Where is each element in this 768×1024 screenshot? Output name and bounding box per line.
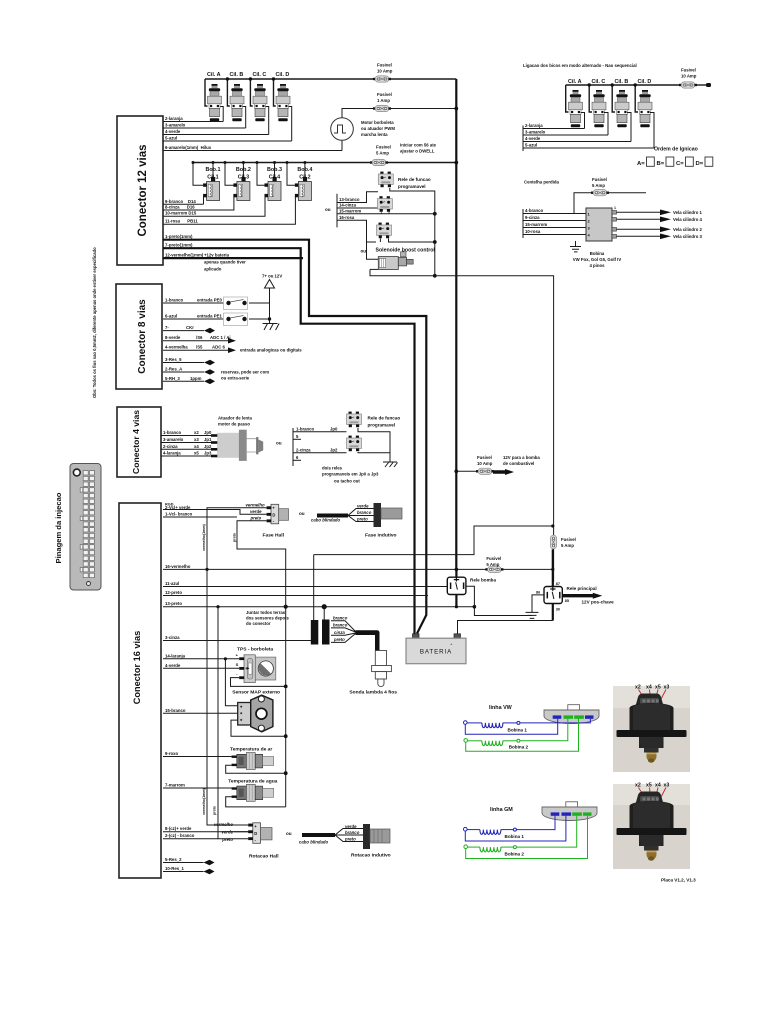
- svg-text:Rele bomba: Rele bomba: [470, 577, 496, 582]
- wire 2-laranja injector A: [163, 107, 223, 122]
- wire rotation preto ground riser: [218, 607, 248, 839]
- wire solenoid output to main switched rail: [370, 269, 554, 582]
- wire 6-azul entrada PE1: [163, 314, 271, 321]
- svg-text:14-cinza: 14-cinza: [339, 203, 357, 208]
- svg-text:branco: branco: [333, 616, 348, 621]
- svg-text:verde: verde: [345, 824, 357, 829]
- svg-text:4-verde: 4-verde: [165, 663, 181, 668]
- svg-text:cinza: cinza: [334, 630, 345, 635]
- fuse F2 1A: [373, 105, 391, 111]
- svg-text:2-(cz) - branco: 2-(cz) - branco: [165, 833, 195, 838]
- svg-text:dois reles: dois reles: [322, 466, 343, 471]
- svg-text:B=: B=: [657, 161, 665, 167]
- svg-text:Fusivel: Fusivel: [477, 455, 492, 460]
- svg-text:3-amarelo: 3-amarelo: [525, 130, 546, 135]
- wire fuse F1 to trunk: [390, 78, 456, 80]
- wire 7-marrom water temp: [163, 783, 232, 789]
- relay K2 programmable: [377, 196, 392, 212]
- svg-text:2-laranja: 2-laranja: [165, 116, 183, 121]
- svg-text:1-Vcl- branco: 1-Vcl- branco: [165, 512, 193, 517]
- wire fuse F4 output terminal: [696, 84, 708, 86]
- svg-text:Conector 8 vias: Conector 8 vias: [137, 299, 148, 374]
- wire comb rail bank2: [522, 126, 524, 152]
- lambda wires fan: [331, 616, 356, 643]
- svg-text:6-amarelo(1mm) Hilux: 6-amarelo(1mm) Hilux: [165, 145, 212, 150]
- wire TPS ground tap: [231, 678, 286, 687]
- svg-text:16-rosa: 16-rosa: [339, 215, 355, 220]
- svg-text:Temperatura de agua: Temperatura de agua: [228, 779, 277, 785]
- wire 8-cz verde rotation hall: [163, 826, 249, 832]
- svg-text:/S6: /S6: [196, 335, 203, 340]
- wire 4-verde bank2: [523, 113, 631, 142]
- svg-text:ou: ou: [276, 441, 282, 446]
- lambda probe Sonda: [349, 651, 397, 696]
- wire relay K2 left pin drop: [380, 212, 382, 213]
- arrow 12V pos-chave: [562, 593, 614, 605]
- svg-text:Sonda lambda 4 fios: Sonda lambda 4 fios: [349, 690, 397, 696]
- svg-text:Bobina 2: Bobina 2: [505, 852, 525, 857]
- wire 2-cinza x4 Jp2: [161, 444, 212, 450]
- wire rele principal 30 to battery: [458, 621, 553, 634]
- svg-text:x2: x2: [635, 685, 641, 691]
- photo IAC valve GM: [613, 783, 690, 870]
- wire 13-branco: [337, 192, 378, 203]
- svg-text:5-azul: 5-azul: [525, 143, 537, 148]
- wire 4-laranja x5 Jp3: [161, 451, 212, 457]
- wire coil bus 12V: [193, 162, 456, 164]
- wire 11-rosa coil Bob.4: [163, 196, 295, 224]
- wire vela cilindro 4: [617, 218, 661, 220]
- wire 10-rosa pin4: [523, 229, 586, 235]
- fuse F7 5A vertical: [550, 535, 575, 549]
- svg-text:7-marrom: 7-marrom: [165, 783, 185, 788]
- fuse F6 10A fuel pump feed: [454, 455, 494, 474]
- svg-text:1: 1: [614, 206, 616, 210]
- svg-text:Bobina 1: Bobina 1: [508, 728, 528, 733]
- wire 5-azul bank2: [523, 113, 654, 149]
- svg-text:2-laranja: 2-laranja: [525, 123, 543, 128]
- svg-text:Placa V1.2, V1.3: Placa V1.2, V1.3: [661, 878, 696, 883]
- svg-text:Rele de funcao: Rele de funcao: [368, 416, 401, 421]
- wire 5-azul injector D: [163, 107, 292, 142]
- wire 1-preto(1mm) power ground outer run: [163, 234, 426, 634]
- svg-text:13-preto: 13-preto: [165, 601, 182, 606]
- wire 5-RH_3: [163, 376, 215, 384]
- relay K5 programmable Jp2: [347, 436, 362, 452]
- svg-text:x3: x3: [664, 685, 670, 691]
- sensor Fase indutivo: [317, 503, 402, 539]
- svg-text:reservas, pode ser com: reservas, pode ser com: [221, 370, 269, 375]
- svg-text:5-RH_3: 5-RH_3: [165, 376, 180, 381]
- svg-text:x4: x4: [646, 685, 652, 691]
- svg-text:Atuador de lenta: Atuador de lenta: [218, 416, 253, 421]
- svg-text:CKr: CKr: [186, 325, 194, 330]
- svg-text:16-vermelho: 16-vermelho: [165, 564, 191, 569]
- wire 4-vermelha ADC6: [163, 345, 236, 353]
- coil Bobina 1 GM blue: [464, 816, 566, 841]
- wire 4-verde injector C: [163, 107, 269, 135]
- svg-text:+12v bateria: +12v bateria: [204, 252, 230, 257]
- wire 2-cinza Jp2 relay: [293, 447, 347, 453]
- relay K1 programmable: [378, 172, 393, 188]
- wire 2-Vcl+ verde to Fase Hall: [163, 503, 267, 515]
- injector INJ2-D: [638, 90, 652, 127]
- svg-text:Obs: Todos os fios sao 0,5mm2,: Obs: Todos os fios sao 0,5mm2, diferente…: [92, 247, 97, 398]
- svg-text:Fusivel: Fusivel: [377, 92, 392, 97]
- svg-text:2-cinza: 2-cinza: [296, 447, 311, 452]
- svg-text:Cil. A: Cil. A: [207, 72, 221, 78]
- svg-text:2-Vcl+ verde: 2-Vcl+ verde: [165, 505, 191, 510]
- sensor TPS borboleta: [236, 647, 276, 683]
- svg-text:D: D: [272, 512, 275, 517]
- svg-text:Conector 4 vias: Conector 4 vias: [131, 410, 141, 474]
- svg-text:Cil. B: Cil. B: [230, 72, 244, 78]
- svg-text:6-azul: 6-azul: [165, 314, 177, 319]
- svg-text:4-laranja: 4-laranja: [163, 451, 181, 456]
- wire 1-branco x2 Jp0: [161, 430, 212, 436]
- svg-text:4-vermelha: 4-vermelha: [165, 345, 188, 350]
- fuse F3 5A coils: [370, 159, 388, 165]
- svg-text:ou extra-serie: ou extra-serie: [221, 376, 250, 381]
- relay RL1 Rele bomba: [447, 569, 496, 606]
- sensor water temperature: [232, 784, 274, 801]
- wire 3-cinza lambda: [163, 635, 311, 641]
- svg-text:Pinagem da injecao: Pinagem da injecao: [54, 492, 63, 563]
- svg-text:5 Amp: 5 Amp: [592, 183, 605, 188]
- wire 9-branco coil Bob.1: [163, 196, 204, 204]
- svg-text:1 Amp: 1 Amp: [377, 98, 390, 103]
- svg-text:10-marrom D15: 10-marrom D15: [165, 211, 197, 216]
- wire 16-rosa: [337, 215, 376, 242]
- svg-text:Ordem de Ignicao: Ordem de Ignicao: [654, 147, 698, 153]
- connector J3 Conector 4 vias: [117, 407, 161, 477]
- relay RL2 Rele principal: [536, 549, 597, 620]
- svg-text:BATERIA: BATERIA: [420, 649, 452, 656]
- svg-text:87: 87: [556, 582, 560, 586]
- IAC connector VW: [544, 705, 599, 724]
- connector J2 Conector 8 vias: [116, 284, 162, 389]
- wire Fase Hall preto ground drop: [237, 521, 286, 807]
- svg-text:10 Amp: 10 Amp: [681, 74, 697, 79]
- wire vela cilindro 1: [617, 211, 661, 213]
- svg-text:x2: x2: [194, 430, 199, 435]
- svg-text:Fusivel: Fusivel: [592, 177, 607, 182]
- svg-text:3-amarelo: 3-amarelo: [163, 437, 184, 442]
- svg-text:preto: preto: [221, 837, 233, 842]
- relay K4 programmable Jp0: [347, 412, 362, 428]
- wire 3-amarelo bank2: [523, 113, 608, 136]
- coil Bobina 2 GM green: [464, 816, 588, 859]
- coil Bob.1 Cil.1: [192, 161, 221, 201]
- coil Bob.4 Cil.2: [286, 161, 313, 201]
- svg-text:entrada PE0: entrada PE0: [197, 298, 222, 303]
- svg-text:x5: x5: [194, 451, 199, 456]
- wire 1-branco entrada PE0: [163, 298, 270, 304]
- svg-text:11-rosa PB11: 11-rosa PB11: [165, 219, 198, 224]
- svg-text:Conector 16 vias: Conector 16 vias: [132, 631, 142, 705]
- svg-text:ou: ou: [361, 249, 367, 254]
- svg-text:3-cinza: 3-cinza: [165, 635, 180, 640]
- fuse F1 10A: [373, 76, 391, 82]
- wire 15-marrom pin3: [523, 222, 586, 228]
- wire 16-vermelho feed: [163, 564, 456, 569]
- injector INJ-D: [276, 84, 290, 121]
- svg-text:12-preto: 12-preto: [165, 590, 182, 595]
- svg-text:1-preto(1mm): 1-preto(1mm): [165, 234, 193, 239]
- svg-text:vermelho(1mm): vermelho(1mm): [202, 787, 206, 815]
- svg-text:vermelho: vermelho: [246, 502, 265, 507]
- svg-text:branco: branco: [345, 830, 360, 835]
- svg-text:Fase Hall: Fase Hall: [263, 533, 285, 539]
- wire fuse F5 leads: [574, 193, 646, 214]
- node bus 13-16 left rail: [336, 194, 338, 228]
- wire lambda heater feed: [314, 526, 553, 555]
- svg-text:verde: verde: [357, 504, 369, 509]
- svg-text:9-branco D14: 9-branco D14: [165, 199, 196, 204]
- svg-text:preto: preto: [233, 532, 237, 542]
- svg-text:Ligacao dos bicos em modo alte: Ligacao dos bicos em modo alternado - Na…: [523, 63, 637, 68]
- sensor Rotacao indutivo: [302, 824, 391, 859]
- svg-text:preto: preto: [344, 837, 356, 842]
- svg-text:Jp0: Jp0: [204, 430, 212, 435]
- svg-text:10 Amp: 10 Amp: [377, 69, 393, 74]
- wire relay chain right rail: [389, 188, 435, 276]
- svg-text:1ppm: 1ppm: [190, 376, 202, 381]
- battery BATERIA: [406, 634, 466, 664]
- power symbol 7+ ou 12V: [262, 274, 282, 324]
- wire relays right rail to ground conn4: [358, 428, 390, 462]
- svg-text:Jp0: Jp0: [330, 426, 338, 431]
- svg-text:2-Res_A: 2-Res_A: [165, 367, 182, 372]
- svg-text:8-cinza D16: 8-cinza D16: [165, 204, 195, 209]
- ground rele principal: [526, 595, 545, 619]
- wire 10-Res_1: [163, 866, 215, 874]
- svg-text:x3: x3: [194, 437, 199, 442]
- svg-text:8-verde: 8-verde: [165, 335, 181, 340]
- svg-text:7+ ou 12V: 7+ ou 12V: [262, 274, 282, 279]
- svg-text:aplicado: aplicado: [204, 267, 222, 272]
- node bus coil pack left rail: [522, 209, 524, 238]
- wire lambda heater drop: [313, 555, 315, 620]
- svg-text:Rotacao Hall: Rotacao Hall: [249, 854, 279, 860]
- svg-text:Vela cilindro 1: Vela cilindro 1: [673, 210, 703, 215]
- svg-text:verde: verde: [250, 509, 262, 514]
- wire 1-branco Jp0 relay: [293, 426, 347, 432]
- svg-text:Bobina 1: Bobina 1: [505, 834, 525, 839]
- wire 14-cinza: [337, 203, 381, 209]
- svg-text:S: S: [236, 662, 239, 667]
- svg-text:14-laranja: 14-laranja: [165, 653, 186, 658]
- ground conn4 dashed: [383, 462, 398, 467]
- svg-text:5 Amp: 5 Amp: [561, 543, 574, 548]
- svg-text:Jp3: Jp3: [204, 451, 212, 456]
- svg-text:cabo blindado: cabo blindado: [299, 840, 328, 845]
- svg-text:do conector: do conector: [246, 621, 271, 626]
- coil Bobina 1 VW blue: [464, 719, 591, 735]
- ECU connector Pinagem drawing: [70, 464, 101, 591]
- svg-text:linha VW: linha VW: [489, 705, 513, 711]
- svg-text:A=: A=: [637, 161, 645, 167]
- svg-text:preto: preto: [213, 805, 217, 815]
- svg-text:Centelha perdida: Centelha perdida: [524, 180, 559, 185]
- ground coil pack: [570, 241, 581, 252]
- svg-text:Fase indutivo: Fase indutivo: [365, 533, 397, 539]
- photo IAC valve VW: [613, 685, 690, 773]
- wire pin 5 stub: [293, 434, 301, 440]
- svg-text:ajustar o DWELL: ajustar o DWELL: [400, 149, 435, 154]
- wire 15-marrom: [337, 208, 437, 215]
- svg-text:programavel: programavel: [368, 423, 396, 428]
- svg-text:Cil. D: Cil. D: [276, 72, 290, 78]
- svg-text:ADC 6: ADC 6: [212, 345, 226, 350]
- svg-text:linha GM: linha GM: [490, 807, 513, 813]
- wire 6-amarelo PWM motor: [163, 140, 342, 150]
- wire 3-Res_5: [163, 357, 215, 365]
- wire 4-verde TPS signal: [163, 663, 239, 669]
- svg-text:Iniciar com 56 ate: Iniciar com 56 ate: [400, 143, 437, 148]
- svg-text:preto: preto: [250, 515, 262, 520]
- svg-text:x5: x5: [646, 783, 652, 789]
- svg-text:D: D: [254, 831, 257, 836]
- wire +12V trunk vertical: [455, 79, 457, 569]
- svg-text:10 Amp: 10 Amp: [477, 461, 493, 466]
- wire 11-azul pump relay coil: [163, 581, 447, 587]
- svg-text:1-branco: 1-branco: [165, 298, 184, 303]
- sensor Fase Hall connector: [246, 502, 289, 538]
- switch SW1: [224, 297, 248, 310]
- wire 10-marrom coil Bob.3: [163, 196, 265, 216]
- wire 8-verde ADC: [163, 335, 236, 343]
- svg-text:Cil. D: Cil. D: [638, 79, 652, 85]
- svg-text:10-rosa: 10-rosa: [525, 229, 541, 234]
- svg-text:Jp2: Jp2: [204, 444, 212, 449]
- wire 1-Vcl- branco to Fase Hall: [163, 512, 237, 517]
- svg-text:Juntar todos terras: Juntar todos terras: [246, 610, 286, 615]
- svg-text:Cil. A: Cil. A: [568, 79, 582, 85]
- wire 7-preto(1mm) power ground inner run: [163, 242, 415, 633]
- svg-text:programaveis em Jp0 a Jp3: programaveis em Jp0 a Jp3: [322, 472, 379, 477]
- injector INJ2-B: [615, 90, 629, 127]
- node rail Jp relays: [292, 428, 294, 466]
- svg-text:vermelho(1mm): vermelho(1mm): [202, 523, 206, 551]
- wire air temp ground tap: [226, 765, 286, 773]
- injector INJ-B: [230, 84, 244, 121]
- sensor MAP externo: [232, 690, 280, 732]
- svg-text:Rotacao indutivo: Rotacao indutivo: [351, 853, 391, 859]
- svg-text:Vela cilindro 4: Vela cilindro 4: [673, 217, 703, 222]
- coil Bob.3 Cil.4: [256, 161, 282, 201]
- svg-text:branco: branco: [357, 510, 372, 515]
- wire 5-Res_2: [163, 857, 215, 865]
- svg-text:ou: ou: [286, 831, 292, 836]
- svg-text:12V para a bomba: 12V para a bomba: [503, 455, 540, 460]
- coil Bobina 2 VW green: [464, 719, 579, 752]
- svg-text:Rele principal: Rele principal: [567, 586, 597, 591]
- svg-text:Jp2: Jp2: [330, 447, 338, 452]
- svg-text:85: 85: [565, 599, 569, 603]
- svg-text:Vela cilindro 3: Vela cilindro 3: [673, 234, 703, 239]
- arrow 12V para a bomba: [493, 455, 540, 475]
- svg-text:cabo blindado: cabo blindado: [311, 518, 340, 523]
- svg-text:4-verde: 4-verde: [165, 129, 181, 134]
- svg-text:5 Amp: 5 Amp: [376, 151, 389, 156]
- svg-text:13-branco: 13-branco: [339, 197, 360, 202]
- fuse F8 5A pump relay: [455, 556, 555, 573]
- svg-text:12V pos-chave: 12V pos-chave: [582, 600, 615, 605]
- svg-text:5-azul: 5-azul: [165, 136, 177, 141]
- wire vela cilindro 3: [617, 235, 661, 237]
- svg-text:preto: preto: [333, 637, 345, 642]
- svg-text:4 pinos: 4 pinos: [589, 263, 605, 268]
- svg-text:Jp1: Jp1: [204, 437, 212, 442]
- svg-text:marcha lenta: marcha lenta: [361, 132, 388, 137]
- svg-text:5-Res_2: 5-Res_2: [165, 857, 182, 862]
- svg-text:entrada analogicas ou digitais: entrada analogicas ou digitais: [240, 348, 302, 353]
- wire 14-laranja TPS feed: [163, 653, 239, 706]
- svg-text:TPS - borboleta: TPS - borboleta: [237, 647, 273, 653]
- svg-text:7-: 7-: [165, 325, 169, 330]
- svg-text:Fusivel: Fusivel: [561, 537, 576, 542]
- injector INJ2-C: [592, 90, 606, 127]
- wire 9-cinza pin2: [523, 215, 586, 221]
- wire rele bomba 87 to ground link: [466, 586, 532, 615]
- svg-text:9-cinza: 9-cinza: [525, 215, 540, 220]
- svg-text:3-Res_5: 3-Res_5: [165, 357, 182, 362]
- wire 3-amarelo x3 Jp1: [161, 437, 212, 443]
- svg-text:motor de passo: motor de passo: [218, 422, 250, 427]
- svg-text:de combustivel: de combustivel: [503, 461, 534, 466]
- svg-text:apenas quando tiver: apenas quando tiver: [204, 260, 246, 265]
- svg-text:ou tacho out: ou tacho out: [334, 479, 360, 484]
- wire fuse F2 line to motor and trunk: [342, 109, 456, 118]
- svg-text:x3: x3: [664, 783, 670, 789]
- svg-text:4-verde: 4-verde: [525, 136, 541, 141]
- svg-text:x4: x4: [194, 444, 199, 449]
- connector J4 Conector 16 vias: [119, 503, 161, 878]
- wire relay K3 bottom left to solenoid branch: [367, 239, 381, 260]
- wire 12-vermelho(1mm) battery 12V: [163, 252, 303, 271]
- injector INJ2-A: [569, 90, 583, 127]
- svg-text:Bobina: Bobina: [590, 251, 605, 256]
- svg-text:Sensor MAP externo: Sensor MAP externo: [232, 690, 280, 696]
- svg-text:15-marrom: 15-marrom: [525, 222, 547, 227]
- svg-text:Cil. C: Cil. C: [592, 79, 606, 85]
- svg-text:15-marrom: 15-marrom: [339, 208, 361, 213]
- wire +12V bus injectors bank2: [566, 85, 680, 112]
- coil Bob.2 Cil.3: [224, 161, 251, 201]
- wire 2-cz branco rotation: [163, 833, 218, 839]
- svg-text:4-branco: 4-branco: [525, 208, 544, 213]
- lambda connector bars: [311, 620, 330, 645]
- svg-text:entrada PE1: entrada PE1: [197, 314, 222, 319]
- IAC connector GM: [542, 802, 597, 821]
- svg-text:10-Res_1: 10-Res_1: [165, 866, 184, 871]
- svg-text:x2: x2: [635, 783, 641, 789]
- svg-text:VW Fox, Gol G5, Golf IV: VW Fox, Gol G5, Golf IV: [573, 257, 622, 262]
- motor M1 borboleta PWM: [331, 118, 396, 141]
- svg-text:Cil. B: Cil. B: [615, 79, 629, 85]
- stepper motor IAC drawing: [211, 430, 263, 461]
- firing order boxes A B C D: [637, 157, 713, 167]
- svg-text:ADC 1 / Ai: ADC 1 / Ai: [210, 335, 231, 340]
- wire 9-roxo air temp: [163, 751, 232, 757]
- wire MAP ground tap: [231, 720, 286, 736]
- injector INJ-C: [253, 84, 267, 121]
- svg-text:8-(cz)+ verde: 8-(cz)+ verde: [165, 826, 192, 831]
- svg-text:2-cinza: 2-cinza: [163, 444, 178, 449]
- wire 2-laranja bank2: [523, 113, 585, 129]
- wire 8-cinza coil Bob.2: [163, 196, 234, 210]
